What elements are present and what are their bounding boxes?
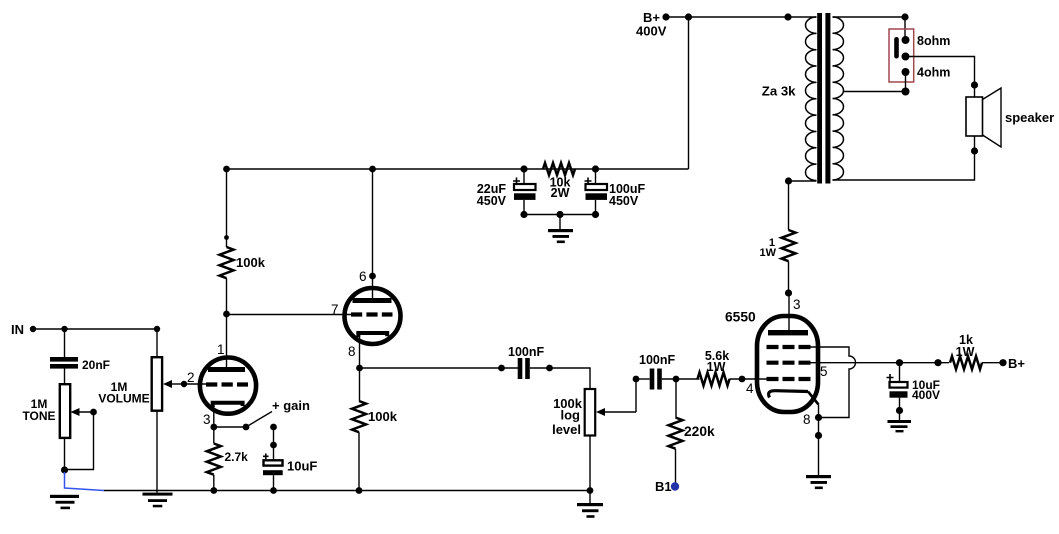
svg-text:log: log [561,408,581,423]
node B plus screen [999,359,1006,366]
svg-text:1W: 1W [707,360,726,374]
wire 100k V2 to rail [358,432,360,490]
resistor 2.7k [207,444,221,475]
node 100nF right [546,365,553,372]
node small above 100k [224,235,229,240]
speaker horn [983,88,1002,147]
triode V2 envelope [345,288,401,344]
triode V1 plate [208,367,245,372]
ground log pot [589,491,591,504]
node rail 100k [223,166,230,173]
svg-text:100nF: 100nF [639,353,675,367]
wire 100k to rail [226,169,228,247]
node cathode V2 [356,365,363,372]
svg-text:6: 6 [359,269,367,284]
node 10uF rail [270,487,277,494]
wire screen to 1k [900,362,950,364]
wire 220k to B1 [675,449,677,483]
triode V2 cathode [358,333,387,337]
wire 100uF top stub [595,169,597,184]
potentiometer VR1 1M TONE [60,384,70,438]
svg-text:IN: IN [11,322,24,337]
node 100uF bottom [592,211,599,218]
capacitor 100nF coupling 1 [518,358,523,379]
svg-text:20nF: 20nF [82,358,110,372]
transformer core [817,13,822,184]
wire secondary top down to 8ohm [904,17,906,40]
ground VOLUME [143,493,173,496]
svg-text:1W: 1W [956,345,975,359]
node psu ground [556,211,563,218]
wiper log pot arrow [601,411,636,413]
resistor 100k plate V1 [220,247,234,278]
capacitor 10uF 400V plus [887,374,894,381]
node cathode V1 [210,424,217,431]
svg-text:100k: 100k [368,409,398,424]
pentode cathode lead diagonal [808,392,819,405]
node B plus terminal [662,13,669,20]
svg-text:1: 1 [217,342,225,357]
wire cap bottoms [524,214,596,216]
wire cathode to 2.7k [213,427,215,444]
node 100k V2 rail [356,487,363,494]
pentode plate bar [768,330,808,335]
potentiometer VR2 1M VOLUME [152,357,162,411]
svg-text:B1: B1 [655,479,672,494]
wire 220k down [675,379,677,418]
node B plus junction [685,13,692,20]
pentode grid row 2 [767,361,811,365]
transformer secondary winding [833,17,844,180]
wire 22uF bottom stub [523,200,525,215]
svg-text:4ohm: 4ohm [917,66,950,80]
svg-text:2W: 2W [551,186,570,200]
node pin 3 [785,289,792,296]
svg-text:8ohm: 8ohm [917,34,950,48]
node rail 100uF [592,165,599,172]
node 100nF2 right [673,376,680,383]
node TONE wiper [90,409,97,416]
wire VOLUME pot bottom [156,411,158,493]
node VOLUME branch [154,326,160,332]
wire 100nF2 right to 5.6k [662,378,700,380]
wire plate node row to V2 grid [227,314,352,316]
wire ground rail bottom [104,490,590,492]
triode V2 plate lead [372,169,374,298]
triode V1 envelope [200,358,256,414]
wire 10uF to rail [273,475,275,490]
svg-text:5: 5 [820,364,828,379]
wire B plus to transformer [666,16,817,18]
node IN terminal [30,326,36,332]
capacitor 100uF plus [585,178,592,185]
resistor 220k [669,418,683,449]
ground TONE [50,495,79,498]
triode V1 cathode lead [213,405,215,427]
triode V1 plate lead [226,314,228,367]
resistor 100k cathode V2 [352,401,366,432]
pentode cathode [769,391,808,398]
wire selector to speaker [906,57,975,98]
svg-text:100k: 100k [236,255,266,270]
wire wiper to 100nF2 [635,379,637,412]
capacitor 22uF plus [513,178,520,185]
ground 10uF [899,411,901,421]
selector switch bar [894,37,899,59]
triode V2 cathode lead [359,335,361,368]
svg-text:400V: 400V [636,24,667,39]
wire blue annotation to ground rail [65,472,105,491]
node B1 [671,482,679,490]
speaker body [966,97,983,136]
capacitor 10uF 400V [890,382,908,388]
svg-text:4: 4 [746,381,754,396]
wire 10uF top stub [899,363,901,382]
pentode grid row 3 [767,377,811,381]
wire 20nF to tone pot [64,369,66,385]
node transformer primary bottom [785,177,792,184]
pentode grid row 1 [767,345,811,349]
potentiometer 100k log level [585,389,596,436]
capacitor 10uF plus sign [263,454,269,460]
node 20nF branch [61,326,67,332]
triode V2 plate [353,298,392,303]
svg-text:450V: 450V [609,194,639,208]
node rail 22uF [520,165,527,172]
switch contact b [270,424,277,431]
svg-text:220k: 220k [684,424,715,439]
wire TONE wiper return [65,412,94,470]
node 4ohm [902,68,910,76]
wire 1k to B plus [982,362,1003,364]
triode V1 grid dashes [206,382,248,386]
resistor 10k 2W [543,163,575,175]
svg-text:3: 3 [203,412,211,427]
svg-text:6550: 6550 [725,310,756,325]
wire primary bottom [789,180,817,182]
node grid 6550 [739,376,746,383]
node transformer primary top [784,13,791,20]
svg-text:TONE: TONE [22,409,55,423]
resistor 5.6k 1W [698,372,730,385]
node speaker bottom [971,147,978,154]
wire cathode down to ground [818,405,820,476]
wire IN to volume pot [33,328,157,330]
wire 100nF to pot [530,368,590,389]
capacitor C1 20nF [50,357,78,362]
wire transformer to 1W resistor [788,181,790,230]
selector red box [889,29,914,82]
node pin 8 [815,414,822,421]
node pin 6 [369,273,376,280]
wire cathode V2 down [359,368,361,401]
switch contact a [243,424,250,431]
svg-text:VOLUME: VOLUME [98,392,149,406]
node above 10uF [270,442,277,449]
wiper VOLUME arrow [168,383,184,385]
wire speaker bottom [833,136,975,180]
node 100nF left [498,365,505,372]
svg-text:Za 3k: Za 3k [762,84,796,99]
wire cathode V2 row [360,367,519,369]
svg-text:B+: B+ [1008,356,1025,371]
node 4ohm tap junction [902,88,910,96]
node screen bypass [896,359,903,366]
node secondary top [901,13,908,20]
svg-text:7: 7 [331,302,339,317]
svg-text:10uF: 10uF [287,459,317,474]
pentode plate lead [788,293,790,330]
wire cathode to switch [214,426,246,428]
wire 10uF bottom stub [899,398,901,411]
triode V2 grid dashes [351,312,393,316]
resistor 1 ohm 1W [782,230,796,261]
node rail V2 plate [369,166,376,173]
svg-text:level: level [552,422,581,437]
wire 1W to pin 3 [788,261,790,293]
node 2.7k rail [210,487,217,494]
wire 2.7k to rail [213,475,215,491]
node before 1k [934,359,941,366]
svg-text:1W: 1W [760,247,777,259]
svg-text:450V: 450V [477,194,507,208]
wire B+ rail preamp [227,168,689,170]
capacitor 100uF 450V [586,184,608,190]
node 100nF2 left [633,376,640,383]
wire 5.6k to 6550 grid [730,378,768,380]
node selector common [902,53,910,61]
switch arm gain [246,412,272,428]
capacitor 10uF [264,460,283,465]
node 10uF ground [896,407,903,414]
wire log pot bottom [589,436,591,491]
wire plate node up [226,278,228,314]
svg-text:+ gain: + gain [272,398,310,413]
node 22uF bottom [520,211,527,218]
ground psu [559,215,561,230]
wire VOLUME branch down [156,329,158,357]
wire pin5 screen out [811,362,900,364]
wire switch to 10uF [273,427,275,460]
node TONE bottom [61,466,68,473]
node log pot ground [587,487,594,494]
wire grid V1 to tube [184,383,206,385]
node 8ohm [902,36,910,44]
wire 20nF branch down [64,329,66,357]
svg-text:3: 3 [793,297,801,312]
capacitor 100nF coupling 2 [650,369,655,390]
pentode 6550 envelope [757,316,818,412]
wire 22uF top stub [523,169,525,184]
triode V1 cathode [213,403,243,407]
ground 6550 cathode [806,475,831,478]
svg-text:100nF: 100nF [508,345,544,359]
wiper TONE arrow [76,411,94,413]
svg-text:2.7k: 2.7k [225,450,249,464]
transformer primary winding [805,17,816,181]
wire 100nF2 left stub [636,378,650,380]
node plate V1 [223,311,230,318]
wire beam plates loop with hop [811,347,856,418]
wire secondary top [833,16,906,18]
svg-text:8: 8 [803,412,811,427]
wire 4ohm tap [844,72,906,92]
wire B plus vertical feed [688,17,690,169]
node cathode ground junction [815,432,822,439]
node speaker top [971,81,978,88]
capacitor 22uF 450V [514,184,536,190]
wire 100uF bottom stub [595,200,597,215]
wire TONE pot bottom [64,438,66,472]
node grid V1 [181,381,187,387]
svg-text:speaker: speaker [1005,110,1054,125]
svg-text:400V: 400V [912,388,940,402]
svg-text:8: 8 [348,344,356,359]
svg-text:2: 2 [187,370,195,385]
resistor 1k 1W [950,356,982,369]
